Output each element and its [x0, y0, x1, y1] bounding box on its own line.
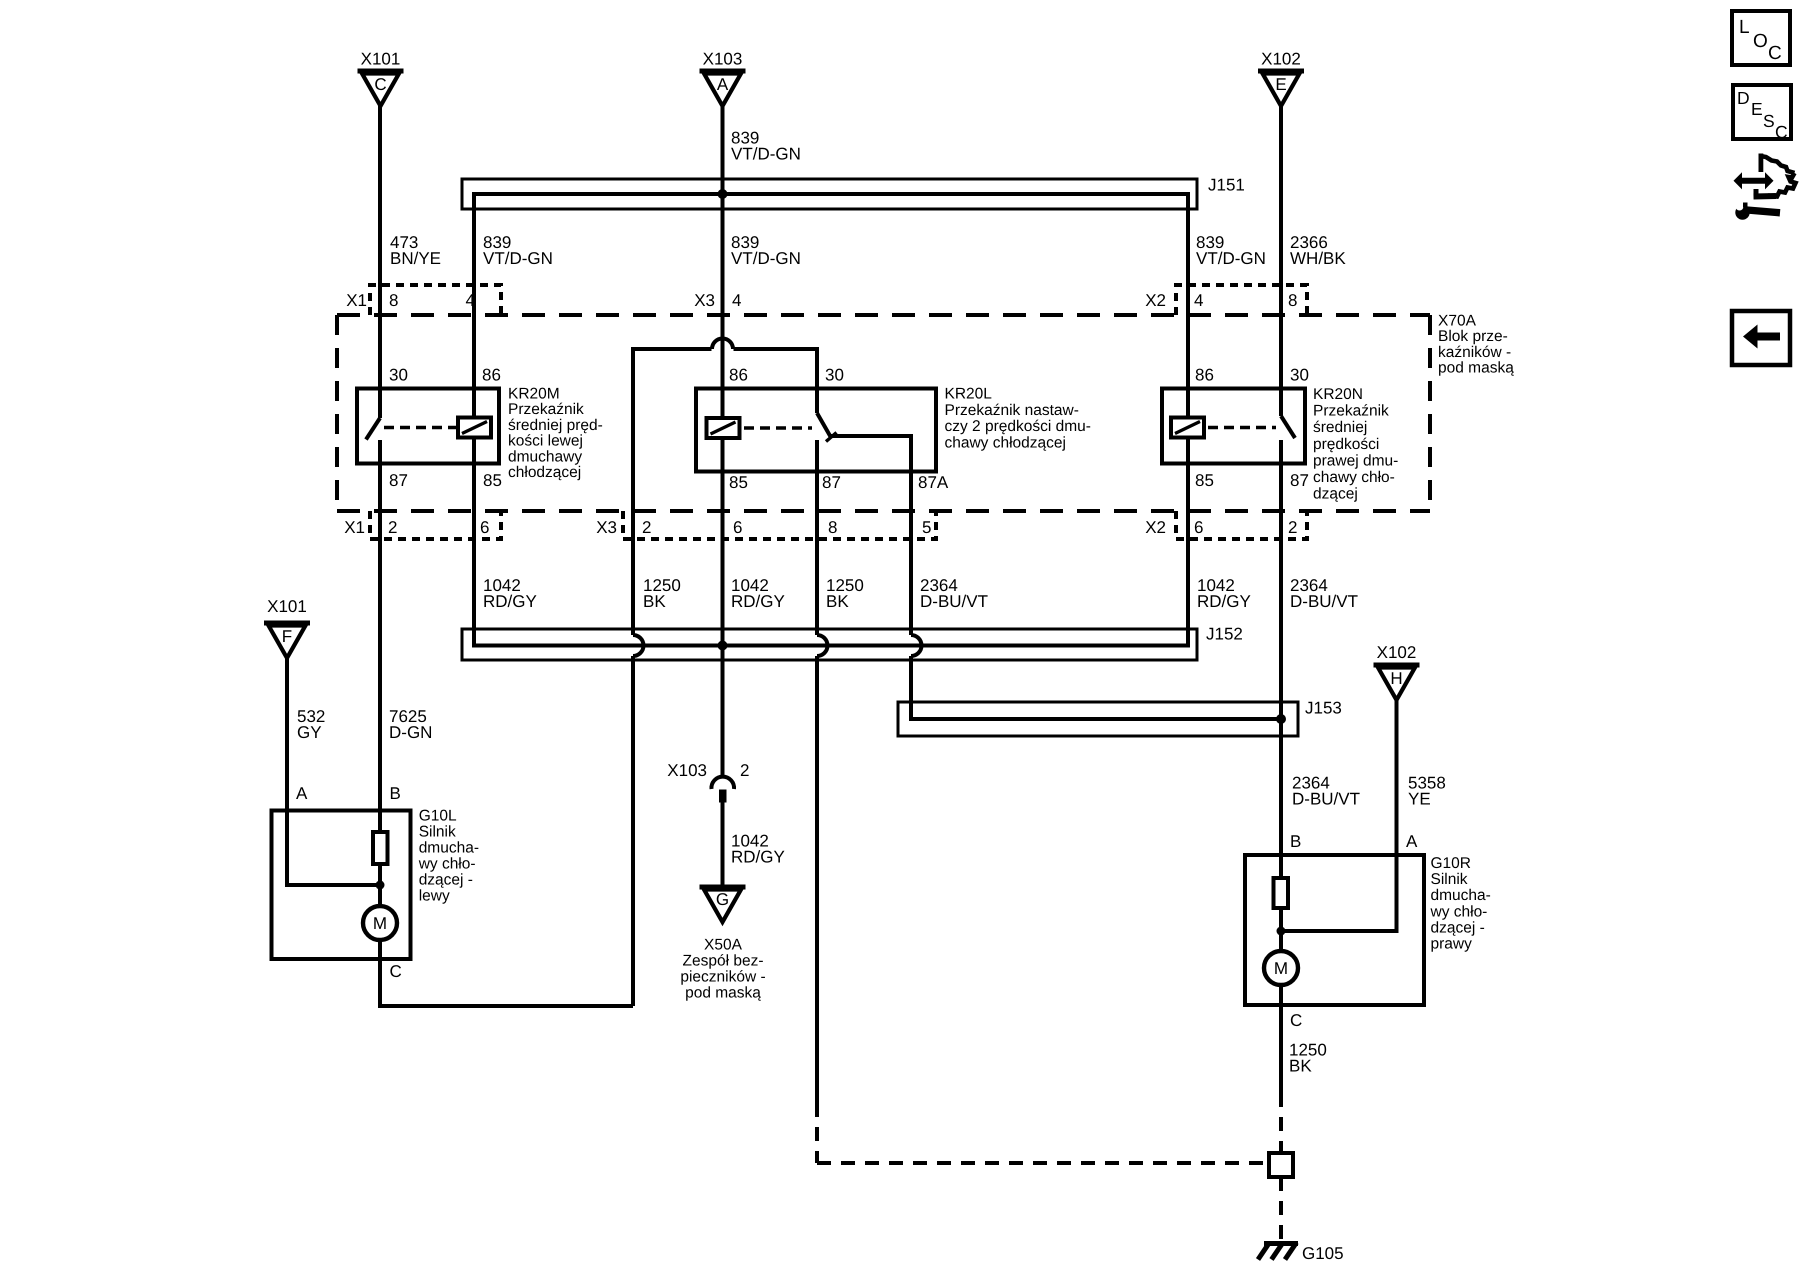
svg-text:BK: BK: [826, 592, 849, 611]
svg-text:F: F: [282, 627, 292, 646]
junction dot on J151 at 839 wire: [718, 189, 728, 199]
svg-text:X70A: X70A: [1438, 313, 1477, 330]
wire 1042 RD/GY : KR20N pin85 X2-6 down to J152 right end: [1186, 464, 1190, 646]
svg-text:6: 6: [480, 518, 489, 537]
svg-text:2: 2: [388, 518, 397, 537]
wire label 1042 RD/GY (left): [483, 576, 537, 611]
ground splice connector square: [1269, 1153, 1293, 1177]
svg-text:85: 85: [483, 471, 502, 490]
wire label 7625 D-GN: [389, 707, 432, 742]
svg-text:L: L: [1739, 17, 1750, 38]
relay KR20L box: [696, 389, 936, 472]
svg-text:BK: BK: [643, 592, 666, 611]
icon LOC button: [1732, 11, 1790, 65]
svg-text:dzącej -: dzącej -: [419, 872, 473, 889]
svg-text:4: 4: [1194, 291, 1203, 310]
svg-text:VT/D-GN: VT/D-GN: [1196, 249, 1266, 268]
svg-text:VT/D-GN: VT/D-GN: [731, 249, 801, 268]
wire label 1250 BK (x633): [643, 576, 681, 611]
svg-text:J153: J153: [1305, 699, 1342, 718]
svg-text:chawy chło-: chawy chło-: [1313, 469, 1395, 486]
svg-text:X102: X102: [1377, 643, 1417, 662]
svg-text:chawy chłodzącej: chawy chłodzącej: [945, 434, 1066, 451]
svg-text:dmucha-: dmucha-: [1431, 887, 1491, 904]
wire 7625 D-GN : KR20M pin87 X1-2 down to G10L B: [378, 464, 382, 811]
svg-text:X1: X1: [344, 518, 365, 537]
svg-text:RD/GY: RD/GY: [731, 848, 785, 867]
wire 1042 RD/GY : KR20M pin85 X1-6 down to J152: [472, 464, 476, 646]
relay KR20L contact 87A link: [830, 436, 911, 472]
svg-text:pieczników -: pieczników -: [680, 969, 765, 986]
relay KR20L description: [945, 386, 1091, 452]
relay KR20M pin 87 stub: [378, 440, 382, 464]
svg-text:85: 85: [729, 473, 748, 492]
svg-text:wy chło-: wy chło-: [1430, 903, 1488, 920]
connector pin box X1 (top) pins 8,4: [346, 285, 501, 315]
connector X101-F off-page triangle: [264, 597, 310, 658]
svg-text:87A: 87A: [918, 473, 949, 492]
svg-text:D-GN: D-GN: [389, 723, 432, 742]
svg-text:KR20N: KR20N: [1313, 386, 1363, 403]
svg-text:średniej pręd-: średniej pręd-: [508, 417, 603, 434]
svg-text:D-BU/VT: D-BU/VT: [920, 592, 988, 611]
svg-text:RD/GY: RD/GY: [1197, 592, 1251, 611]
svg-text:A: A: [296, 784, 308, 803]
svg-text:VT/D-GN: VT/D-GN: [731, 145, 801, 164]
wire 532 GY : X101-F down to G10L A: [285, 658, 289, 811]
icon vehicle-wiring (car with double arrow and wrench): [1734, 154, 1796, 220]
wire label 1042 RD/GY (middle): [731, 576, 785, 611]
svg-text:C: C: [1775, 122, 1788, 142]
svg-text:2: 2: [1288, 518, 1297, 537]
svg-text:X50A: X50A: [704, 937, 743, 954]
wire 1250 BK : KR20L pin30 up over 839 wire, down at x633 to G10L C: [633, 339, 817, 1007]
G10L terminal letters A B C: [296, 784, 402, 981]
svg-text:dmucha-: dmucha-: [419, 840, 479, 857]
dashed wire from splice square to ground G105: [1279, 1177, 1283, 1240]
svg-text:85: 85: [1195, 471, 1214, 490]
svg-text:BN/YE: BN/YE: [390, 249, 441, 268]
svg-text:30: 30: [825, 366, 844, 385]
wire label 839 VT/D-GN (middle): [731, 233, 801, 268]
relay KR20L pin labels: [729, 366, 949, 493]
connector X102-H off-page triangle: [1374, 643, 1420, 700]
connector pin box X3 (bottom) pins 2,6,8,5: [596, 511, 936, 539]
wire 839 VT/D-GN left branch : J151 to X1-4 / KR20M pin86: [472, 209, 476, 418]
wire 1042 RD/GY : KR20L pin85 X3-6 down through J152 dot: [721, 472, 725, 660]
relay KR20N pin 87 stub: [1279, 440, 1283, 464]
junction dot on J153 at 2364 wire: [1276, 714, 1286, 724]
wire label 839 VT/D-GN (right): [1196, 233, 1266, 268]
G10R junction dot: [1277, 927, 1286, 936]
G10L internal wire from A: [287, 811, 380, 886]
wire 2366 WH/BK : X102-E down to X70A X2-8 / KR20N pin30: [1279, 106, 1283, 388]
motor G10R box: [1245, 855, 1424, 1005]
wire label 1250 BK (x817): [826, 576, 864, 611]
svg-text:30: 30: [389, 366, 408, 385]
svg-text:prawy: prawy: [1431, 936, 1473, 953]
svg-text:KR20L: KR20L: [945, 386, 993, 403]
G10R description: [1430, 855, 1491, 953]
svg-text:C: C: [374, 75, 386, 94]
svg-text:X2: X2: [1145, 518, 1166, 537]
wire label 1250 BK (bottom): [1289, 1041, 1327, 1076]
svg-text:X3: X3: [694, 291, 715, 310]
connector label X3 (top) pin 4: [694, 291, 741, 310]
wire G10L C down and right to x633: [380, 959, 633, 1006]
svg-text:X101: X101: [361, 50, 401, 69]
wire label 839 VT/D-GN (left): [483, 233, 553, 268]
svg-text:30: 30: [1290, 366, 1309, 385]
svg-text:dzącej -: dzącej -: [1431, 919, 1485, 936]
wire label 1042 RD/GY (right): [1197, 576, 1251, 611]
wire label 2364 D-BU/VT (x1281): [1290, 576, 1358, 611]
svg-text:X3: X3: [596, 518, 617, 537]
svg-text:8: 8: [1288, 291, 1297, 310]
relay KR20N pin labels: [1195, 366, 1309, 491]
svg-text:5: 5: [922, 518, 931, 537]
wire 2364 D-BU/VT : KR20L 87A X3-5 down across J152 to J153: [911, 472, 922, 717]
wire label 473 BN/YE: [390, 233, 441, 268]
G10L resistor: [373, 811, 388, 907]
svg-text:M: M: [1274, 959, 1288, 978]
relay KR20N box: [1162, 389, 1305, 464]
svg-text:chłodzącej: chłodzącej: [508, 464, 581, 481]
svg-text:kaźników -: kaźników -: [1438, 344, 1511, 361]
svg-text:WH/BK: WH/BK: [1290, 249, 1346, 268]
G10L junction dot: [376, 881, 385, 890]
relay block X70A dashed boundary: [337, 315, 1430, 511]
svg-text:A: A: [1406, 832, 1418, 851]
svg-text:X102: X102: [1261, 50, 1301, 69]
svg-text:pod maską: pod maską: [1438, 360, 1514, 377]
motor G10L box: [272, 811, 411, 960]
svg-text:prawej dmu-: prawej dmu-: [1313, 452, 1398, 469]
svg-text:C: C: [1768, 43, 1782, 64]
svg-text:średniej: średniej: [1313, 419, 1367, 436]
G10L description: [418, 808, 479, 905]
svg-text:dmuchawy: dmuchawy: [508, 448, 582, 465]
svg-text:E: E: [1751, 99, 1763, 119]
connector pin box X2 (bottom) pins 6,2: [1145, 511, 1307, 539]
svg-text:D-BU/VT: D-BU/VT: [1290, 592, 1358, 611]
svg-text:KR20M: KR20M: [508, 386, 560, 403]
relay KR20N description: [1313, 386, 1398, 503]
ground symbol G105: [1258, 1243, 1344, 1264]
svg-text:wy chło-: wy chło-: [418, 856, 476, 873]
wire 473 BN/YE : X101-C down to X70A X1-8 / KR20M pin30: [378, 106, 382, 388]
svg-text:4: 4: [732, 291, 741, 310]
wire label 2366 WH/BK: [1290, 233, 1346, 268]
svg-text:X1: X1: [346, 291, 367, 310]
svg-text:E: E: [1275, 75, 1286, 94]
svg-text:YE: YE: [1408, 790, 1431, 809]
svg-text:X101: X101: [267, 597, 307, 616]
svg-text:lewy: lewy: [419, 888, 450, 905]
relay KR20N coil on pin 86 wire: [1171, 389, 1204, 464]
connector X50A-G off-page triangle (down): [700, 887, 746, 922]
svg-text:VT/D-GN: VT/D-GN: [483, 249, 553, 268]
G10R terminal letters B A C: [1290, 832, 1418, 1030]
inline connector X103 pin 2: [667, 761, 749, 803]
wire 1250 BK : KR20L pin87 X3-8 down across J152: [817, 472, 828, 1103]
svg-text:C: C: [1290, 1011, 1302, 1030]
connector pin box X1 (bottom) pins 2,6: [344, 511, 501, 539]
svg-text:J152: J152: [1206, 625, 1243, 644]
svg-text:4: 4: [466, 291, 475, 310]
svg-text:8: 8: [828, 518, 837, 537]
relay KR20M pin 30 stub and switch blade: [366, 389, 380, 440]
G10R resistor: [1274, 855, 1289, 951]
svg-text:2: 2: [642, 518, 651, 537]
svg-text:X2: X2: [1145, 291, 1166, 310]
wire 839 VT/D-GN right branch : J151 to X2-4 / KR20N pin86: [1186, 209, 1190, 418]
icon DESC button: [1733, 85, 1791, 142]
svg-text:G10R: G10R: [1431, 855, 1472, 872]
svg-text:O: O: [1753, 31, 1768, 52]
connector pin box X2 (top) pins 4,8: [1145, 285, 1307, 315]
wire label 5358 YE: [1408, 774, 1446, 809]
svg-text:kości lewej: kości lewej: [508, 433, 583, 450]
G10L motor M: [363, 906, 397, 959]
svg-text:prędkości: prędkości: [1313, 436, 1379, 453]
relay KR20L actuator dashed link: [744, 426, 812, 429]
svg-text:Przekaźnik: Przekaźnik: [508, 401, 584, 418]
svg-text:86: 86: [482, 366, 501, 385]
svg-text:GY: GY: [297, 723, 322, 742]
svg-text:D-BU/VT: D-BU/VT: [1292, 790, 1360, 809]
splice pack J151: [462, 176, 1245, 210]
svg-text:G105: G105: [1302, 1244, 1344, 1263]
svg-text:2: 2: [740, 761, 749, 780]
wire label 2364 D-BU/VT (x911): [920, 576, 988, 611]
connector X103-A off-page triangle: [700, 50, 746, 107]
junction dot on J152 at 1042 wire: [718, 641, 728, 651]
wire 1042 RD/GY : J152 down to inline connector X103-2: [721, 660, 725, 777]
svg-text:dzącej: dzącej: [1313, 486, 1358, 503]
relay KR20M coil on pin 86 wire: [458, 389, 491, 464]
svg-text:RD/GY: RD/GY: [483, 592, 537, 611]
svg-text:M: M: [373, 914, 387, 933]
svg-text:BK: BK: [1289, 1057, 1312, 1076]
wire label 839 VT/D-GN (top): [731, 129, 801, 164]
relay KR20M description: [508, 386, 603, 482]
svg-text:8: 8: [389, 291, 398, 310]
svg-text:czy 2 prędkości dmu-: czy 2 prędkości dmu-: [945, 418, 1091, 435]
wire 839 VT/D-GN : X103-A down through J151 to KR20L pin86: [721, 106, 725, 418]
svg-text:C: C: [390, 962, 402, 981]
relay KR20M box: [357, 389, 499, 464]
svg-text:X103: X103: [703, 50, 743, 69]
svg-text:B: B: [1290, 832, 1301, 851]
svg-text:Zespół bez-: Zespół bez-: [683, 953, 764, 970]
svg-text:A: A: [717, 75, 729, 94]
svg-text:86: 86: [729, 366, 748, 385]
svg-text:86: 86: [1195, 366, 1214, 385]
relay KR20L pin 87 stub: [815, 440, 819, 472]
wire 5358 YE : X102-H down to G10R A: [1395, 700, 1399, 855]
splice pack J153: [898, 699, 1342, 737]
relay KR20M pin labels: [389, 366, 502, 491]
wire label 1042 RD/GY (below X103-2): [731, 832, 785, 867]
G10R internal wire from A: [1281, 855, 1397, 931]
svg-text:Silnik: Silnik: [419, 824, 456, 841]
svg-text:87: 87: [389, 471, 408, 490]
svg-text:Przekaźnik: Przekaźnik: [1313, 403, 1389, 420]
svg-text:RD/GY: RD/GY: [731, 592, 785, 611]
connector X101-C off-page triangle: [358, 50, 404, 107]
svg-text:G: G: [716, 890, 729, 909]
dashed wire from 1250 BK x817 to ground splice: [817, 1103, 1268, 1163]
svg-text:Przekaźnik nastaw-: Przekaźnik nastaw-: [945, 402, 1079, 419]
svg-text:G10L: G10L: [419, 808, 457, 825]
X50A fuse block description: [680, 937, 765, 1002]
svg-text:87: 87: [822, 473, 841, 492]
svg-text:B: B: [390, 784, 401, 803]
G10R motor M: [1264, 951, 1298, 1005]
relay KR20N actuator dashed link: [1208, 426, 1276, 429]
splice pack J152: [462, 625, 1243, 661]
wire 2364 D-BU/VT : KR20N pin87 X2-2 down through J153 to G10R B: [1279, 464, 1283, 856]
svg-text:D: D: [1737, 88, 1750, 108]
svg-text:6: 6: [733, 518, 742, 537]
relay KR20N pin 30 stub and switch blade: [1281, 389, 1295, 439]
connector X102-E off-page triangle: [1258, 50, 1304, 107]
icon back-arrow button: [1732, 311, 1790, 365]
relay KR20L coil on pin 86 wire: [707, 389, 740, 473]
wire 1042 RD/GY : X103-2 to fuse block G triangle: [721, 803, 725, 888]
svg-text:pod maską: pod maską: [685, 985, 761, 1002]
wire 1250 BK : G10R C down (solid then dashed): [1279, 1005, 1283, 1152]
svg-text:Blok prze-: Blok prze-: [1438, 328, 1508, 345]
relay KR20M actuator dashed link: [384, 426, 458, 429]
relay KR20L pin 30 stub and switch blade: [817, 389, 837, 442]
svg-text:6: 6: [1194, 518, 1203, 537]
wire label 532 GY: [297, 707, 325, 742]
svg-text:Silnik: Silnik: [1431, 871, 1468, 888]
svg-text:S: S: [1763, 111, 1775, 131]
svg-text:J151: J151: [1208, 176, 1245, 195]
svg-text:X103: X103: [667, 761, 707, 780]
wire label 2364 D-BU/VT (below J153): [1292, 774, 1360, 809]
X70A block description text: [1438, 313, 1514, 377]
svg-text:H: H: [1390, 669, 1402, 688]
svg-text:87: 87: [1290, 471, 1309, 490]
